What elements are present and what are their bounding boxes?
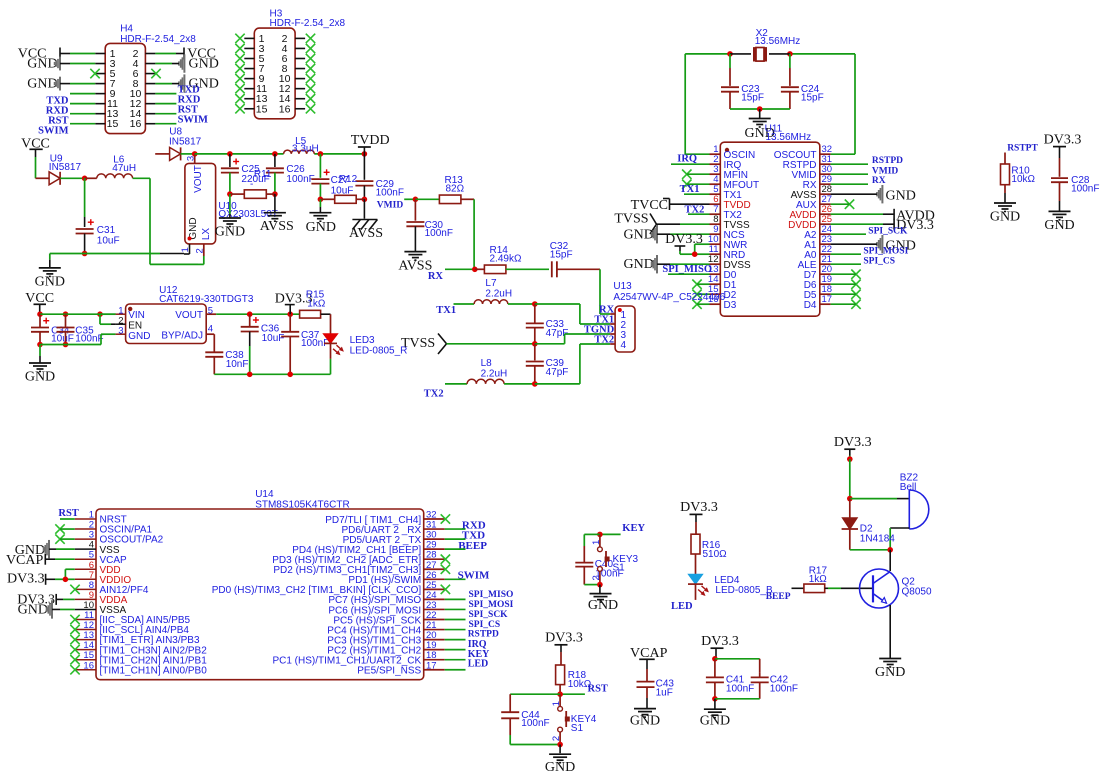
svg-text:RX: RX xyxy=(803,180,817,191)
junction (C37 bottom) xyxy=(287,372,293,378)
svg-text:GND: GND xyxy=(25,370,55,385)
no-connect U14 pin2 xyxy=(55,524,74,533)
wire BZ2 bottom terminal xyxy=(890,528,909,550)
regulator U12 CAT6219-330TDGT3 xyxy=(116,285,254,344)
no-connect U14 pin25 xyxy=(441,585,450,594)
junction (C35 top) xyxy=(63,311,69,317)
ground GND (C43) xyxy=(630,709,660,729)
svg-text:S1: S1 xyxy=(613,563,626,574)
net label SPI_MOSI (U11 pin22) xyxy=(863,246,908,256)
svg-text:VMID: VMID xyxy=(792,170,817,181)
svg-text:GND: GND xyxy=(18,603,48,618)
wire H4 pin8 xyxy=(155,83,179,85)
wire U12 pin4 to C38 xyxy=(213,334,215,352)
junction (C29/TVDD) xyxy=(362,151,368,157)
wire RX to U13 pin1 xyxy=(600,269,610,314)
capacitor C38 10nF xyxy=(205,350,248,374)
svg-text:100nF: 100nF xyxy=(1071,183,1099,194)
net label KEY (KEY3) xyxy=(622,523,645,534)
wire H4 pin16 xyxy=(155,123,176,125)
wire H4 pin14 xyxy=(155,113,176,115)
svg-text:TVSS: TVSS xyxy=(614,211,648,226)
wire to U12 pin1 xyxy=(100,313,116,315)
svg-text:10uF: 10uF xyxy=(51,333,74,344)
wire C26 gnd xyxy=(274,194,276,212)
svg-text:47pF: 47pF xyxy=(546,367,569,378)
capacitor C26 100nF xyxy=(266,154,315,194)
buzzer BZ2 Bell xyxy=(900,473,929,530)
junction (U11 pin11) xyxy=(692,251,698,257)
svg-text:TX2: TX2 xyxy=(594,334,614,345)
junction (L8/C39) xyxy=(532,381,538,387)
net port DV3.3 (U11 pin25) xyxy=(894,218,934,233)
svg-text:SPI_CS: SPI_CS xyxy=(469,620,501,630)
ground GND (C25) xyxy=(215,218,245,240)
svg-text:31: 31 xyxy=(822,154,833,165)
wire TVSS to U13 pin3 xyxy=(535,334,610,344)
power port DV3.3 (R18) xyxy=(545,631,583,646)
power port VCC (input) xyxy=(21,136,50,151)
junction (KEY4 top) xyxy=(557,691,563,697)
svg-text:30: 30 xyxy=(426,530,437,541)
svg-text:16: 16 xyxy=(279,103,291,115)
junction (KEY3 bottom) xyxy=(597,582,603,588)
wire U14 pin17 xyxy=(445,669,466,671)
net label TX1 (U13 pin2) xyxy=(594,314,614,325)
svg-text:DV3.3: DV3.3 xyxy=(545,631,583,646)
inductor L6 47uH xyxy=(85,155,137,179)
wire collector xyxy=(889,550,891,571)
svg-text:30: 30 xyxy=(822,164,833,175)
wire U11 pin8 xyxy=(657,223,710,225)
net label LED (LED4) xyxy=(671,601,693,612)
svg-text:2.2uH: 2.2uH xyxy=(481,369,508,380)
LED3 LED-0805_R xyxy=(323,314,407,374)
svg-text:2.2uH: 2.2uH xyxy=(485,289,512,300)
capacitor C36 10uF xyxy=(241,314,285,374)
net label SWIM (U14 pin26) xyxy=(458,570,490,582)
wire U11 pin31 xyxy=(831,163,868,165)
no-connect U11 pin14 xyxy=(692,280,709,289)
net label RXD (U14 pin31) xyxy=(462,520,486,532)
wire H4 pin10 xyxy=(155,93,176,95)
svg-text:23: 23 xyxy=(426,600,437,611)
junction (C41 top) xyxy=(712,656,718,662)
junction (KEY3 top) xyxy=(597,532,603,538)
svg-text:32: 32 xyxy=(822,144,833,155)
resistor R11 xyxy=(230,169,275,199)
svg-text:AVSS: AVSS xyxy=(260,219,294,234)
net label TXD (U14 pin30) xyxy=(462,530,485,542)
ground GND (KEY4) xyxy=(545,754,575,775)
no-connect H4 pin5 xyxy=(90,69,99,78)
no-connect U11 pin16 xyxy=(692,300,709,309)
wire U11 pin9 xyxy=(657,233,710,235)
svg-text:10nF: 10nF xyxy=(226,359,249,370)
wire BZ2 top terminal xyxy=(850,498,910,500)
svg-text:26: 26 xyxy=(822,204,833,215)
svg-text:2: 2 xyxy=(194,248,205,253)
wire U11 pin7 xyxy=(688,213,710,215)
svg-text:17: 17 xyxy=(426,660,437,671)
junction (X2 left) xyxy=(727,51,733,57)
LED4 LED-0805_B xyxy=(688,574,773,600)
svg-text:GND: GND xyxy=(990,210,1020,225)
wire H4 pin1 xyxy=(60,53,95,55)
net label VMID xyxy=(377,200,404,210)
no-connect U14 pin28 xyxy=(441,555,450,564)
resistor R15 1kohm xyxy=(300,290,331,319)
svg-text:LX: LX xyxy=(201,228,212,241)
no-connect U11 pin27 xyxy=(831,200,855,209)
no-connect U11 pin20 xyxy=(831,270,861,279)
capacitor C30 100nF xyxy=(406,199,453,251)
svg-text:100nF: 100nF xyxy=(425,228,453,239)
svg-text:U13: U13 xyxy=(613,281,632,292)
wire VMID row xyxy=(404,198,415,200)
wire C34 gnd xyxy=(39,345,41,363)
wire U14 pin24 xyxy=(445,598,466,600)
wire crystal loop right xyxy=(790,54,855,154)
wire crystal loop left xyxy=(685,54,730,154)
svg-text:VIN: VIN xyxy=(128,310,145,321)
pushbutton KEY4 S1 xyxy=(551,694,597,744)
svg-text:D3: D3 xyxy=(724,300,737,311)
svg-text:VOUT: VOUT xyxy=(193,165,204,193)
svg-text:C31: C31 xyxy=(97,225,116,236)
no-connect U14 pin16 xyxy=(70,665,79,674)
svg-text:L8: L8 xyxy=(481,358,493,369)
svg-text:20: 20 xyxy=(426,630,437,641)
svg-text:LED: LED xyxy=(468,659,489,670)
ground AVSS chassis (C29) xyxy=(349,220,383,242)
wire U14 pin4 xyxy=(49,548,75,550)
wire U11 pin26 xyxy=(831,213,895,215)
svg-text:HDR-F-2.54_2x8: HDR-F-2.54_2x8 xyxy=(120,34,196,45)
capacitor C43 1uF xyxy=(637,659,675,708)
svg-text:32: 32 xyxy=(426,510,437,521)
svg-text:15: 15 xyxy=(256,103,268,115)
svg-text:LED-0805_R: LED-0805_R xyxy=(350,345,408,356)
wire C25 gnd xyxy=(229,194,231,218)
svg-text:21: 21 xyxy=(822,254,833,265)
svg-text:IRQ: IRQ xyxy=(677,154,697,165)
junction (C36 top) xyxy=(247,311,253,317)
wire H4 pin3 xyxy=(60,63,95,65)
junction (C27) xyxy=(318,151,324,157)
wire U11 pin23 xyxy=(831,243,877,245)
wire GND row xyxy=(50,254,184,268)
junction (C31 top) xyxy=(82,176,88,182)
wire VCC to U9 xyxy=(36,149,50,178)
ground GND (C34) xyxy=(25,363,55,385)
ground port GND (U11 pin23) xyxy=(877,235,916,253)
net label RST (U14 pin1) xyxy=(58,508,78,519)
net label TX2 (U11 pin7) xyxy=(685,205,705,216)
svg-text:KEY: KEY xyxy=(622,523,645,534)
junction (C41 bottom) xyxy=(712,696,718,702)
svg-text:SPI_MOSI: SPI_MOSI xyxy=(469,600,514,610)
capacitor C24 15pF xyxy=(781,54,824,109)
power port DV3.3 (U11 NWR/NRD) xyxy=(665,232,703,247)
net port TVCC xyxy=(631,198,670,213)
svg-text:15: 15 xyxy=(107,118,119,130)
svg-text:GND: GND xyxy=(306,220,336,235)
svg-text:15pF: 15pF xyxy=(741,93,764,104)
svg-text:1kΩ: 1kΩ xyxy=(307,299,326,310)
net label SPI_MISO (U14 pin24) xyxy=(469,590,514,600)
wire L6 to U10 LX xyxy=(133,178,198,264)
svg-text:15pF: 15pF xyxy=(801,93,824,104)
junction (C35 bottom) xyxy=(63,342,69,348)
net port TVSS (U11 pin8) xyxy=(614,211,656,234)
svg-text:ALE: ALE xyxy=(798,260,817,271)
junction (Q2 collector) xyxy=(887,547,893,553)
svg-text:PC5 (HS)/SPI_SCK: PC5 (HS)/SPI_SCK xyxy=(333,615,421,626)
power port DV3.3 (U14 VDDA) xyxy=(17,592,56,607)
svg-text:GND: GND xyxy=(700,714,730,729)
ground AVSS (C30) xyxy=(398,252,432,274)
svg-text:17: 17 xyxy=(822,294,833,305)
svg-text:RST: RST xyxy=(58,508,78,519)
net label SWIM (H4 pin16) xyxy=(178,115,208,126)
wire U11 pin12 xyxy=(657,263,710,265)
wire U10 pin2 LX xyxy=(198,256,204,264)
pushbutton KEY3 S1 xyxy=(591,534,639,584)
wire H4 pin4 xyxy=(155,63,179,65)
svg-text:100nF: 100nF xyxy=(770,684,798,695)
junction (C34 bottom) xyxy=(37,342,43,348)
svg-text:10kΩ: 10kΩ xyxy=(1011,174,1035,185)
net label TX1 xyxy=(436,305,456,316)
wire KEY row xyxy=(600,533,621,535)
svg-text:BEEP: BEEP xyxy=(766,592,791,602)
svg-text:2.49kΩ: 2.49kΩ xyxy=(490,254,522,265)
svg-text:19: 19 xyxy=(426,640,437,651)
svg-text:20: 20 xyxy=(822,264,833,275)
wire H4 pin12 xyxy=(155,103,176,105)
svg-text:PD1 (HS)/SWIM: PD1 (HS)/SWIM xyxy=(348,575,421,586)
capacitor C33 47pF xyxy=(526,304,569,344)
svg-text:D4: D4 xyxy=(804,300,817,311)
svg-text:27: 27 xyxy=(426,560,437,571)
svg-text:RX: RX xyxy=(872,176,886,186)
wire U14 pin1 xyxy=(60,518,75,520)
svg-text:22: 22 xyxy=(822,244,833,255)
power port DV3.3 (R16) xyxy=(680,500,718,515)
wire H4 pin7 xyxy=(60,83,95,85)
power port DV3.3 (U12) xyxy=(275,291,313,306)
svg-text:HDR-F-2.54_2x8: HDR-F-2.54_2x8 xyxy=(270,18,346,29)
svg-text:1uF: 1uF xyxy=(656,687,673,698)
svg-text:R11: R11 xyxy=(254,169,272,180)
svg-text:29: 29 xyxy=(426,540,437,551)
inductor L5 3.3uH xyxy=(284,136,319,155)
svg-text:100nF: 100nF xyxy=(521,718,549,729)
net label TX2 (U13 pin4) xyxy=(594,334,614,345)
net label BEEP (U14 pin29) xyxy=(458,540,487,552)
wire U11 pin30 xyxy=(831,173,868,175)
resistor R18 10kohm xyxy=(556,645,592,694)
IC U11 13.56MHz xyxy=(708,124,832,317)
svg-text:47uH: 47uH xyxy=(112,163,136,174)
wire TX1 to U13 pin2 xyxy=(535,304,610,324)
wire TVCC to U11 pin6 xyxy=(670,203,710,205)
svg-text:A0: A0 xyxy=(804,250,817,261)
svg-text:PD2 (HS)/TIM3_CH1[TIM2_CH3]: PD2 (HS)/TIM3_CH1[TIM2_CH3] xyxy=(273,565,421,576)
wire U11 pin25 xyxy=(831,223,895,225)
svg-text:PC3 (HS)/TIM1_CH3: PC3 (HS)/TIM1_CH3 xyxy=(327,635,421,646)
capacitor C40 100nF xyxy=(575,559,623,585)
ground AVSS (C26) xyxy=(260,213,294,234)
net label TX2 xyxy=(424,389,444,400)
net label SWIM (H4 pin15) xyxy=(38,126,68,137)
svg-text:RSTPD: RSTPD xyxy=(872,156,903,166)
svg-text:Q8050: Q8050 xyxy=(902,587,932,598)
svg-text:PD3 (HS)/TIM2_CH2 [ADC_ETR]: PD3 (HS)/TIM2_CH2 [ADC_ETR] xyxy=(272,555,421,566)
wire TVDD stem xyxy=(363,147,365,154)
svg-text:GND: GND xyxy=(1044,218,1074,233)
svg-text:CAT6219-330TDGT3: CAT6219-330TDGT3 xyxy=(159,294,254,305)
no-connect H4 pin6 xyxy=(151,69,160,78)
wire U14 pin5 xyxy=(45,558,74,560)
junction (C36 bottom) xyxy=(247,372,253,378)
svg-text:SWIM: SWIM xyxy=(38,126,68,137)
svg-text:100nF: 100nF xyxy=(75,333,103,344)
svg-text:24: 24 xyxy=(426,590,437,601)
svg-text:1kΩ: 1kΩ xyxy=(809,574,828,585)
svg-text:82Ω: 82Ω xyxy=(446,184,465,195)
svg-text:EN: EN xyxy=(128,320,142,331)
wire U14 pin9 xyxy=(56,598,74,600)
inductor L8 2.2uH xyxy=(445,358,535,384)
svg-text:PD7/TLI [ TIM1_CH4]: PD7/TLI [ TIM1_CH4] xyxy=(325,515,421,526)
wire U14 pin20 xyxy=(445,639,466,641)
svg-text:13.56MHz: 13.56MHz xyxy=(755,36,801,47)
svg-text:DVDD: DVDD xyxy=(788,220,816,231)
capacitor C28 100nF xyxy=(1051,147,1099,212)
svg-text:PC1 (HS)/TIM1_CH1/UART2_CK: PC1 (HS)/TIM1_CH1/UART2_CK xyxy=(272,656,421,667)
no-connect U14 pin14 xyxy=(70,645,79,654)
svg-text:SPI_MOSI: SPI_MOSI xyxy=(863,246,908,256)
junction (R12 left) xyxy=(318,197,324,203)
svg-text:VOUT: VOUT xyxy=(175,310,203,321)
svg-text:31: 31 xyxy=(426,520,437,531)
power port DV3.3 (C41) xyxy=(701,634,739,649)
svg-text:SPI_MISO: SPI_MISO xyxy=(469,590,514,600)
net label RST (H4 pin13) xyxy=(48,116,68,127)
svg-text:L7: L7 xyxy=(485,278,497,289)
svg-text:VCAP: VCAP xyxy=(6,553,44,568)
wire U14 pin30 xyxy=(445,538,466,540)
power port DV3.3 (U14 VDD/VDDIO) xyxy=(7,572,46,587)
diode U8 IN5817 xyxy=(155,127,201,161)
net label SPI_MISO (U11 pin13) xyxy=(662,264,712,275)
power port VCC (H4 pin1) xyxy=(18,47,60,62)
svg-text:TX2: TX2 xyxy=(424,389,444,400)
transistor Q2 Q8050 xyxy=(860,569,932,608)
capacitor C41 100nF xyxy=(706,659,754,699)
capacitor C31 10uF xyxy=(76,178,120,253)
wire U14 pin31 xyxy=(445,528,466,530)
wire KEY3 gnd xyxy=(599,585,601,594)
wire R13 to RX xyxy=(473,199,475,269)
svg-text:510Ω: 510Ω xyxy=(703,549,728,560)
junction (C33/C39) xyxy=(532,341,538,347)
resistor R10 10kohm xyxy=(1001,153,1036,203)
svg-text:24: 24 xyxy=(822,224,833,235)
inductor L7 2.2uH xyxy=(454,278,535,304)
svg-text:GND: GND xyxy=(27,57,57,72)
net label RSTPD (U11 pin31) xyxy=(872,156,903,166)
junction (R11 right) xyxy=(272,191,278,197)
svg-text:S1: S1 xyxy=(571,723,584,734)
wire DV3.3 to BZ2/D2 xyxy=(849,459,851,499)
svg-text:D6: D6 xyxy=(804,280,817,291)
svg-text:TX1: TX1 xyxy=(436,305,456,316)
wire U14 pin18 xyxy=(445,659,466,661)
ground port GND (H4 pin8) xyxy=(179,74,219,92)
svg-text:GND: GND xyxy=(630,714,660,729)
net label KEY (U14 pin18) xyxy=(468,649,490,660)
wire U14 pin21 xyxy=(445,629,466,631)
ground port GND (H4 pin4) xyxy=(179,54,219,72)
svg-text:26: 26 xyxy=(426,570,437,581)
svg-text:IN5817: IN5817 xyxy=(169,136,202,147)
ground port GND (U14 pin10) xyxy=(18,600,52,618)
svg-text:15pF: 15pF xyxy=(550,250,573,261)
wire GND row (U12) xyxy=(40,334,116,344)
net port AVDD (U11 pin26) xyxy=(894,208,935,223)
wire U14 pin29 xyxy=(445,548,466,550)
wire U11 pin21 xyxy=(831,263,861,265)
svg-text:LED: LED xyxy=(671,601,693,612)
no-connect U14 pin3 xyxy=(55,534,74,543)
wire TVSS row xyxy=(447,343,535,345)
net label SPI_CS (U14 pin21) xyxy=(469,620,501,630)
wire H4 pin9 xyxy=(70,93,95,95)
no-connect U14 pin15 xyxy=(70,655,79,664)
capacitor C44 100nF xyxy=(501,710,549,745)
wire H4 pin2 xyxy=(155,53,184,55)
svg-text:100nF: 100nF xyxy=(376,187,404,198)
power port TVDD xyxy=(351,133,390,148)
wire C44 bottom xyxy=(510,744,560,746)
wire bottom row (U12) xyxy=(214,373,330,375)
svg-text:1: 1 xyxy=(180,247,191,252)
junction (crystal gnd) xyxy=(757,106,763,112)
junction (C37 top) xyxy=(287,311,293,317)
junction (U14 pin7) xyxy=(63,577,69,583)
svg-text:DV3.3: DV3.3 xyxy=(680,500,718,515)
wire U14 pin19 xyxy=(445,649,466,651)
svg-text:PD4 (HS)/TIM2_CH1 [BEEP]: PD4 (HS)/TIM2_CH1 [BEEP] xyxy=(292,545,421,556)
ground GND (C27) xyxy=(306,213,336,235)
junction (U10 VOUT) xyxy=(192,151,198,157)
wire U8 to rail xyxy=(181,153,195,155)
svg-text:SPI_SCK: SPI_SCK xyxy=(469,610,509,620)
wire DV3.3 to U14 pins 6/7 xyxy=(46,569,75,579)
junction (DV3.3 BZ2) xyxy=(847,456,853,462)
ground port GND (U14 pin4) xyxy=(15,540,49,558)
svg-text:28: 28 xyxy=(822,184,833,195)
svg-text:PC2 (HS)/TIM1_CH2: PC2 (HS)/TIM1_CH2 xyxy=(327,645,421,656)
wire U11 pin13 xyxy=(668,273,710,275)
svg-text:SWIM: SWIM xyxy=(178,115,208,126)
junction (X2 right) xyxy=(787,51,793,57)
wire C41 gnd xyxy=(714,699,716,709)
svg-text:2: 2 xyxy=(591,575,602,580)
